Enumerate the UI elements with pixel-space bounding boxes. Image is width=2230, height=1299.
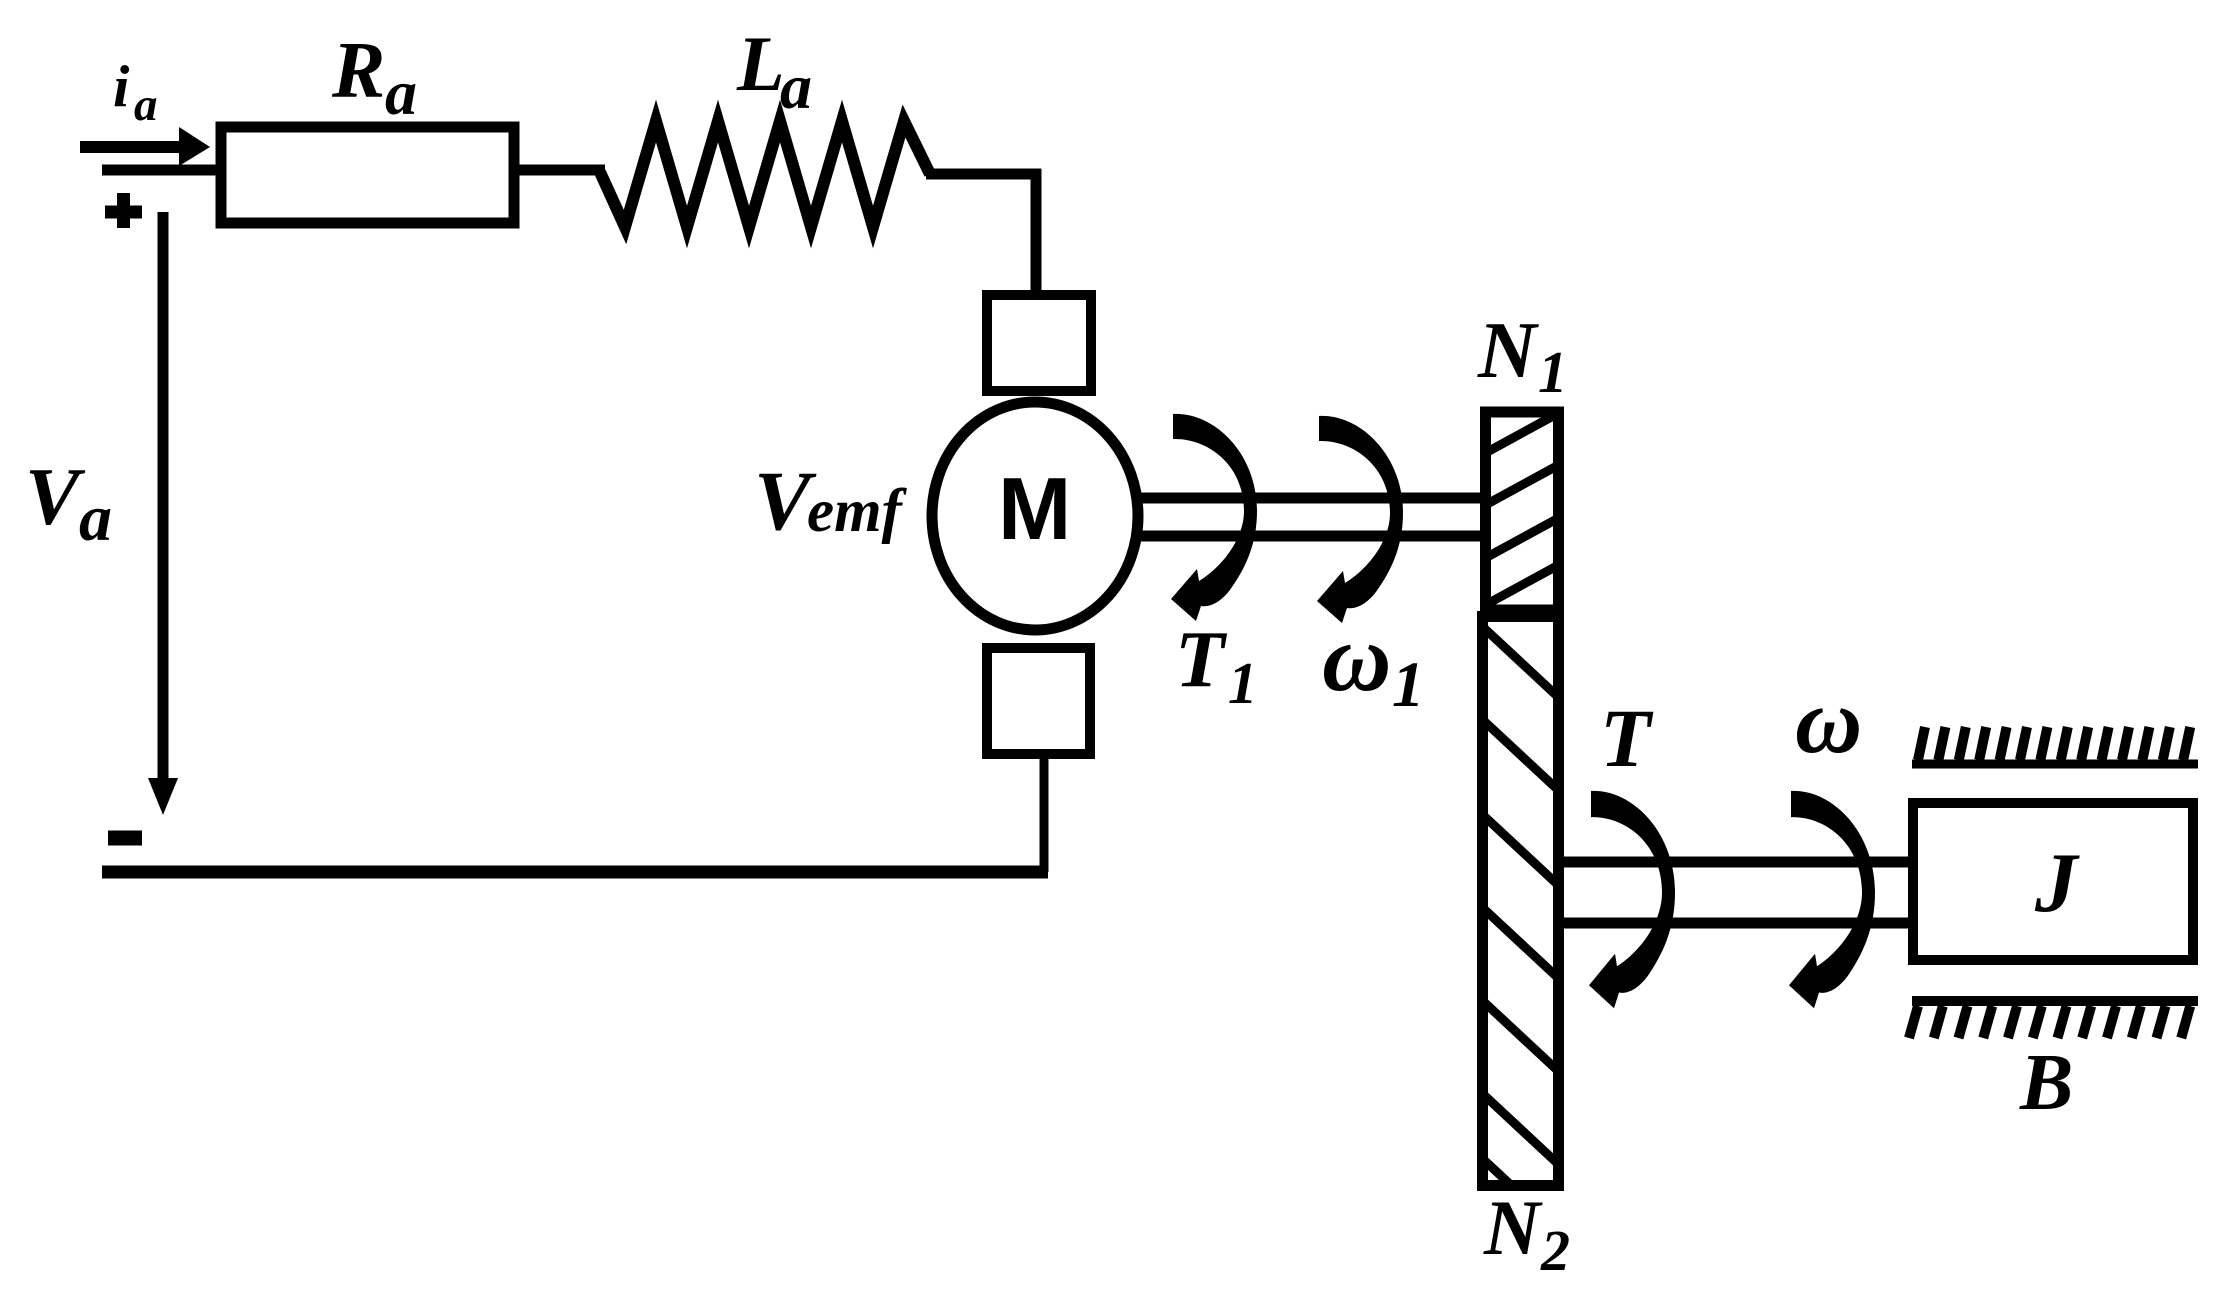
svg-text:1: 1: [1228, 650, 1258, 716]
shaft motor-N1: [1135, 498, 1485, 536]
curved arrow omega: [1789, 791, 1875, 1008]
bottom wall line: [1912, 996, 2198, 1006]
svg-text:i: i: [113, 53, 130, 119]
svg-text:V: V: [25, 451, 86, 542]
svg-text:a: a: [385, 57, 417, 128]
resistor Ra: [221, 127, 514, 223]
Va arrow: [148, 212, 178, 815]
top wall line: [1912, 760, 2198, 769]
svg-text:N: N: [1483, 1184, 1543, 1271]
svg-text:T: T: [1175, 614, 1228, 704]
inductor La: [600, 121, 930, 227]
svg-text:N: N: [1477, 305, 1539, 395]
curved arrow omega1: [1317, 416, 1403, 623]
svg-text:ω: ω: [1795, 670, 1862, 773]
wire motor bottom: [1040, 754, 1049, 872]
wire resistor-inductor: [514, 165, 605, 176]
bottom return wire: [102, 866, 1048, 879]
curved arrow T1: [1171, 414, 1257, 621]
svg-text:1: 1: [1538, 339, 1568, 405]
svg-text:T: T: [1600, 692, 1654, 784]
shaft N2-J: [1564, 862, 1913, 923]
current arrow i_a: [80, 127, 210, 166]
svg-text:B: B: [2019, 1039, 2073, 1127]
motor M circle: [932, 402, 1138, 630]
motor bottom brush square: [987, 648, 1090, 754]
gear N2: [1483, 617, 1559, 1229]
svg-text:J: J: [2034, 836, 2080, 930]
wire inductor-corner: [926, 169, 1041, 180]
gear N1: [1486, 412, 1559, 610]
svg-text:ω: ω: [1322, 604, 1391, 711]
wire top-left: [102, 165, 221, 176]
load inertia J block: [1913, 803, 2193, 960]
wire down to motor: [1031, 169, 1042, 295]
svg-text:L: L: [736, 20, 785, 107]
plus sign: [105, 193, 142, 228]
motor top brush square: [987, 295, 1091, 391]
svg-text:a: a: [79, 482, 112, 555]
svg-text:2: 2: [1540, 1218, 1570, 1283]
minus sign: [108, 831, 142, 846]
svg-text:emf: emf: [807, 478, 908, 545]
svg-text:R: R: [331, 27, 385, 115]
top wall hatch: [1918, 727, 2190, 760]
svg-text:a: a: [780, 51, 812, 122]
bottom wall hatch: [1909, 1006, 2190, 1038]
svg-text:1: 1: [1392, 649, 1425, 721]
svg-text:M: M: [998, 459, 1071, 558]
svg-text:a: a: [134, 79, 158, 131]
curved arrow T: [1589, 791, 1675, 1008]
